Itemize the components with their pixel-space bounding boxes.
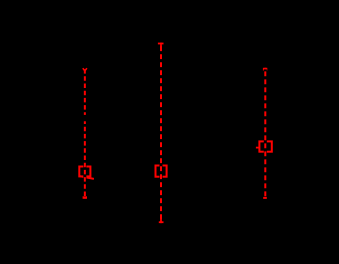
errorbar point 1: open square marker: [79, 167, 90, 177]
errorbar point 2: top cap stem: [160, 44, 162, 46]
errorbar point 3: dash-gap underlay (opaque background segments): [264, 68, 267, 199]
errorbar point 1: dash anomaly dim dot: [84, 121, 86, 123]
errorbar point 2: vertical dashed error line: [160, 43, 162, 224]
errorbar point 3: top cap notch: [264, 69, 267, 70]
errorbar point 3: left stub on marker: [256, 147, 260, 149]
errorbar point 2: bottom cap tick: [159, 221, 164, 223]
errorbar point 3: top cap tick: [263, 68, 267, 71]
errorbar point 1: diagonal stub at marker bottom: [80, 176, 94, 179]
errorbar point 1: dash anomaly dark patch: [83, 115, 86, 121]
errorbar point 3: bottom cap tick: [263, 197, 267, 199]
errorbar point 1: top cap V stroke right: [85, 68, 87, 71]
errorbar point 1: vertical dashed error line: [84, 68, 86, 199]
errorbar point 3: open square marker: [259, 141, 271, 151]
errorbar point 2: bottom cap stem: [160, 219, 162, 222]
errorbar point 2: top cap tick: [158, 43, 164, 45]
errorbar point 1: top cap V stroke left: [83, 68, 85, 71]
errorbar point 2: open square marker: [156, 166, 167, 177]
errorbar point 1: bottom cap tick: [83, 196, 87, 199]
errorbar point 1: dash-gap underlay (opaque background segments): [83, 68, 86, 199]
errorbar point 2: dash-gap underlay (opaque background segments): [160, 43, 163, 224]
errorbar point 3: vertical dashed error line: [264, 68, 266, 199]
